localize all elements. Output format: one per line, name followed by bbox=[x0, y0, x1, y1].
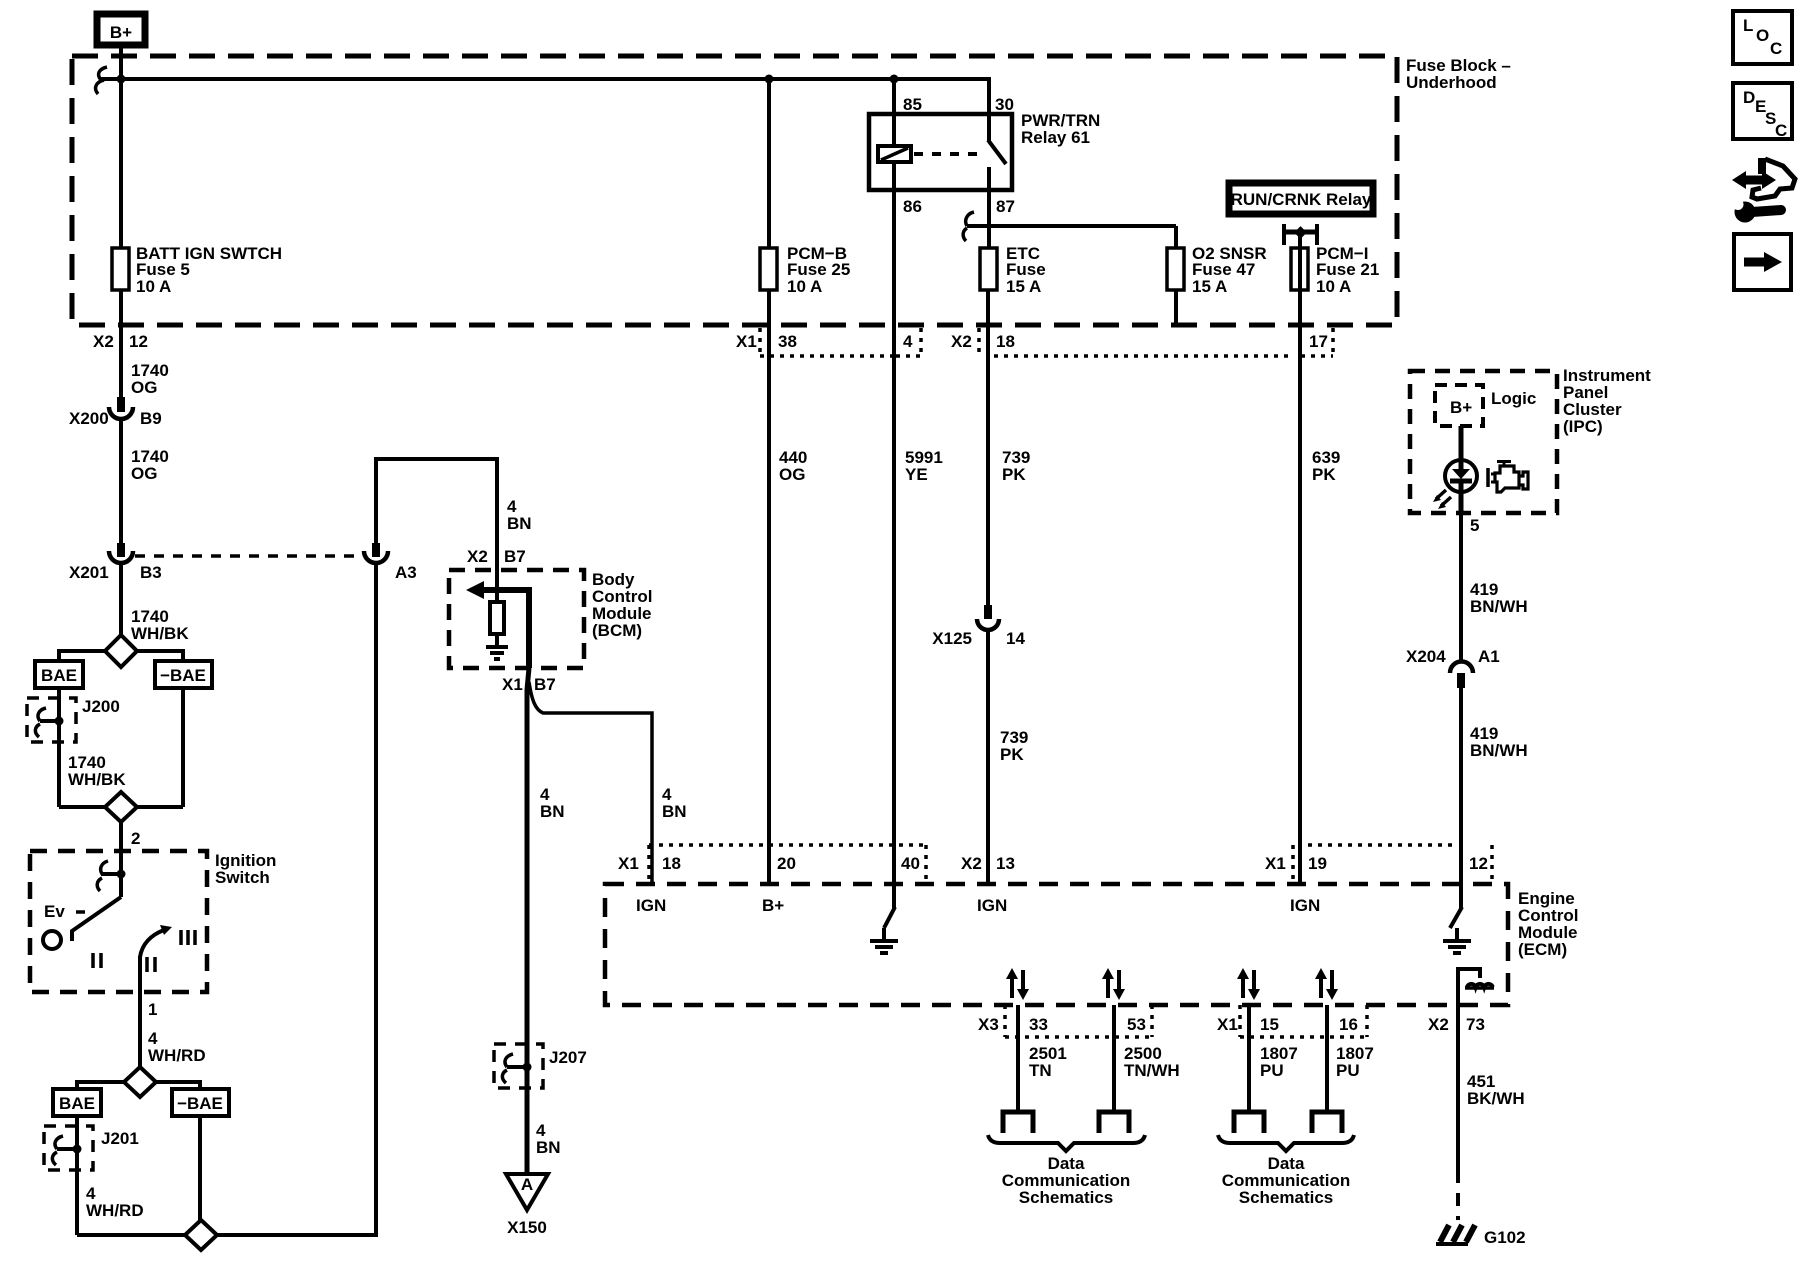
dashed tie line X201 to A3 bbox=[135, 554, 362, 558]
wire LED to IPC pin 5 bbox=[1459, 492, 1464, 513]
wire 1807 PU pin 15 bbox=[1247, 1005, 1251, 1112]
ground inside ECM at pin 12 bbox=[1443, 928, 1471, 953]
wire 2500 TN/WH pin 53 bbox=[1112, 1005, 1116, 1112]
ground G102 bbox=[1436, 1225, 1526, 1247]
wire RUN/CRNK relay output through PCM-I fuse bbox=[1298, 232, 1302, 884]
svg-text:PU: PU bbox=[1260, 1061, 1284, 1080]
svg-text:14: 14 bbox=[1006, 629, 1025, 648]
brace data communication right bbox=[1218, 1135, 1354, 1151]
break symbol at splice of pin 87 feed bbox=[963, 212, 974, 241]
svg-text:X2: X2 bbox=[93, 332, 114, 351]
ignition switch position marks I I bbox=[93, 953, 101, 968]
fuse block underhood dashed outline bbox=[72, 56, 1397, 325]
svg-text:X1: X1 bbox=[1217, 1015, 1238, 1034]
svg-text:(BCM): (BCM) bbox=[592, 621, 642, 640]
connector row under fuse block dotted outline bbox=[760, 328, 1333, 358]
svg-text:15 A: 15 A bbox=[1192, 277, 1227, 296]
module ECM Engine Control Module box bbox=[605, 884, 1578, 1005]
relay linkage dashed line bbox=[914, 152, 984, 156]
svg-text:13: 13 bbox=[996, 854, 1015, 873]
svg-text:15 A: 15 A bbox=[1006, 277, 1041, 296]
wire 739 PK X125 to ECM pin 13 bbox=[986, 630, 990, 884]
connector label X2 B7 at BCM top bbox=[467, 547, 526, 566]
relay U61 PWR/TRN Relay box bbox=[869, 95, 1100, 216]
svg-text:L: L bbox=[1743, 16, 1753, 35]
wire 739 PK ETC fuse down to X125 bbox=[986, 290, 990, 606]
IPC logic block B+ bbox=[1435, 385, 1536, 426]
splice J201 bbox=[44, 1126, 139, 1170]
svg-text:Switch: Switch bbox=[215, 868, 270, 887]
wire label 739 PK upper bbox=[1002, 448, 1030, 484]
wire 419 BN/WH IPC pin 5 to X204 bbox=[1459, 513, 1463, 662]
svg-text:X201: X201 bbox=[69, 563, 109, 582]
splice J200 bbox=[27, 697, 120, 742]
power symbol B+ battery feed bbox=[97, 14, 145, 45]
svg-text:Logic: Logic bbox=[1491, 389, 1536, 408]
ECM bottom connector dotted outline bbox=[1005, 1005, 1367, 1037]
svg-text:87: 87 bbox=[996, 197, 1015, 216]
wire 4 BN BCM to X150 run bbox=[527, 668, 529, 1174]
connector X200 inline bbox=[69, 397, 162, 428]
svg-text:(ECM): (ECM) bbox=[1518, 940, 1567, 959]
svg-text:40: 40 bbox=[901, 854, 920, 873]
svg-text:53: 53 bbox=[1127, 1015, 1146, 1034]
svg-text:Underhood: Underhood bbox=[1406, 73, 1497, 92]
fuse F5 BATT IGN SWTCH bbox=[112, 244, 282, 296]
wire BCM internal feed arrow bbox=[466, 581, 529, 668]
wire 4 BN branch to ECM IGN pin 18 bbox=[529, 682, 652, 884]
svg-text:A: A bbox=[521, 1175, 533, 1194]
svg-text:Ev: Ev bbox=[44, 902, 65, 921]
svg-text:X125: X125 bbox=[932, 629, 972, 648]
off-page connector X150 triangle A bbox=[506, 1174, 548, 1237]
svg-text:15: 15 bbox=[1260, 1015, 1279, 1034]
ignition switch box bbox=[30, 851, 276, 992]
wire bottom run to A3 riser bbox=[77, 563, 376, 1235]
svg-text:12: 12 bbox=[129, 332, 148, 351]
svg-text:IGN: IGN bbox=[1290, 896, 1320, 915]
wire label 1740 OG upper bbox=[131, 361, 169, 397]
engine telltale icon bbox=[1488, 462, 1528, 493]
svg-text:BAE: BAE bbox=[59, 1094, 95, 1113]
wire label 4 BN right branch bbox=[662, 785, 687, 821]
relay RUN/CRNK Relay label box bbox=[1229, 183, 1373, 214]
nav icon DESC box bbox=[1733, 83, 1792, 140]
svg-text:C: C bbox=[1770, 39, 1782, 58]
svg-text:BN: BN bbox=[507, 514, 532, 533]
wire label 5991 YE bbox=[905, 448, 943, 484]
svg-text:TN: TN bbox=[1029, 1061, 1052, 1080]
ignition switch position marks II bbox=[147, 957, 155, 972]
ignition switch travel arc with arrow bbox=[140, 925, 172, 957]
wire dashed tail to G102 bbox=[1456, 1170, 1460, 1220]
svg-text:Relay 61: Relay 61 bbox=[1021, 128, 1090, 147]
module BCM Body Control Module box bbox=[449, 570, 652, 668]
svg-text:38: 38 bbox=[778, 332, 797, 351]
data link arrows pin 33 bbox=[1006, 968, 1029, 1000]
svg-text:30: 30 bbox=[995, 95, 1014, 114]
wire relay pin 85 from bus bbox=[892, 79, 896, 146]
svg-text:10 A: 10 A bbox=[787, 277, 822, 296]
svg-text:C: C bbox=[1775, 121, 1787, 140]
svg-text:73: 73 bbox=[1466, 1015, 1485, 1034]
off-page terminator pin 33 bbox=[1003, 1112, 1033, 1133]
fuse F21 PCM-I bbox=[1291, 244, 1379, 296]
ECM internal switch at pin 12 bbox=[1450, 884, 1462, 928]
svg-text:G102: G102 bbox=[1484, 1228, 1526, 1247]
chassis ground bumps inside ECM bbox=[1467, 984, 1493, 987]
connector X201 inline bbox=[69, 543, 162, 582]
svg-text:J207: J207 bbox=[549, 1048, 587, 1067]
ground inside ECM at pin 40 bbox=[870, 928, 898, 953]
node junction dot B+ bus / Fuse 5 bbox=[117, 75, 126, 84]
splice J207 bbox=[494, 1044, 587, 1088]
wire label 451 BK/WH bbox=[1467, 1072, 1525, 1108]
wire label 4 WH/RD lower bbox=[86, 1184, 144, 1220]
wire label 419 BN/WH lower bbox=[1470, 724, 1528, 760]
svg-text:18: 18 bbox=[996, 332, 1015, 351]
svg-text:2: 2 bbox=[131, 829, 140, 848]
wire 1740 WH/BK X201 to splice diamond bbox=[119, 563, 123, 637]
wire 1807 PU pin 16 bbox=[1325, 1005, 1329, 1112]
svg-text:20: 20 bbox=[777, 854, 796, 873]
ground inside BCM bbox=[486, 634, 508, 659]
svg-text:YE: YE bbox=[905, 465, 928, 484]
svg-text:X1: X1 bbox=[502, 675, 523, 694]
fuse F47 O2 SNSR bbox=[1167, 244, 1267, 296]
svg-text:PU: PU bbox=[1336, 1061, 1360, 1080]
svg-text:17: 17 bbox=[1309, 332, 1328, 351]
wire -BAE lower down to splice bbox=[198, 1116, 202, 1235]
svg-text:BN/WH: BN/WH bbox=[1470, 597, 1528, 616]
svg-text:B9: B9 bbox=[140, 409, 162, 428]
wire label 639 PK bbox=[1312, 448, 1340, 484]
svg-text:B+: B+ bbox=[1450, 398, 1472, 417]
wire BAE down through J200 bbox=[57, 688, 61, 807]
svg-text:Schematics: Schematics bbox=[1019, 1188, 1114, 1207]
svg-text:X150: X150 bbox=[507, 1218, 547, 1237]
wire label 1740 WH/BK bbox=[131, 607, 189, 643]
splice diamond lower bbox=[124, 1067, 156, 1097]
svg-text:16: 16 bbox=[1339, 1015, 1358, 1034]
off-page terminator pin 53 bbox=[1099, 1112, 1129, 1133]
svg-text:BN: BN bbox=[536, 1138, 561, 1157]
ECM bottom connector pin labels bbox=[978, 1015, 1485, 1034]
svg-text:B+: B+ bbox=[762, 896, 784, 915]
svg-text:B+: B+ bbox=[110, 23, 132, 42]
LED diode triangle and bar bbox=[1450, 460, 1472, 494]
ignition switch blade bbox=[72, 897, 121, 941]
svg-text:IGN: IGN bbox=[977, 896, 1007, 915]
svg-text:1: 1 bbox=[148, 1000, 157, 1019]
svg-text:B7: B7 bbox=[534, 675, 556, 694]
wire B+ feed down to Fuse 5 bbox=[119, 46, 123, 250]
wire splice to lower BAE terminals bbox=[77, 1082, 200, 1089]
wire Fuse 5 to connector X2-12 bbox=[119, 290, 123, 404]
svg-text:A3: A3 bbox=[395, 563, 417, 582]
ECM top connector pin labels bbox=[618, 854, 1488, 873]
nav icon LOC box bbox=[1733, 11, 1792, 64]
svg-text:X2: X2 bbox=[1428, 1015, 1449, 1034]
data link arrows pin 16 bbox=[1315, 968, 1338, 1000]
svg-text:10 A: 10 A bbox=[1316, 277, 1351, 296]
wire BAE lower down through J201 bbox=[75, 1116, 79, 1235]
wire 2501 TN pin 33 bbox=[1016, 1005, 1020, 1112]
svg-text:10 A: 10 A bbox=[136, 277, 171, 296]
svg-text:19: 19 bbox=[1308, 854, 1327, 873]
svg-text:D: D bbox=[1743, 88, 1755, 107]
wire PCM-B fuse feed from bus bbox=[767, 79, 771, 250]
svg-text:B3: B3 bbox=[140, 563, 162, 582]
svg-text:RUN/CRNK Relay: RUN/CRNK Relay bbox=[1231, 190, 1372, 209]
splice diamond upper bbox=[105, 635, 137, 667]
connector A3 inline bbox=[364, 543, 417, 582]
terminal box BAE upper bbox=[35, 661, 83, 688]
relay switch blade bbox=[988, 140, 1006, 164]
svg-text:BN: BN bbox=[540, 802, 565, 821]
ECM pin function labels bbox=[636, 896, 1320, 915]
fuse F25 PCM-B bbox=[760, 244, 850, 296]
nav icon wrench bbox=[1729, 198, 1781, 223]
svg-text:(IPC): (IPC) bbox=[1563, 417, 1603, 436]
splice diamond to ignition switch bbox=[59, 792, 183, 822]
label Data Communication Schematics right bbox=[1222, 1154, 1350, 1207]
wire label 419 BN/WH upper bbox=[1470, 580, 1528, 616]
node junction dot B+ bus / relay pin 85 bbox=[890, 75, 899, 84]
svg-text:85: 85 bbox=[903, 95, 922, 114]
svg-text:X2: X2 bbox=[467, 547, 488, 566]
wire splice to ignition switch pin 2 bbox=[119, 822, 123, 897]
indicator LED circle bbox=[1445, 460, 1477, 492]
wire label 2500 TN/WH bbox=[1124, 1044, 1180, 1080]
connector X125 inline bbox=[932, 605, 1025, 648]
svg-text:PK: PK bbox=[1002, 465, 1026, 484]
ECM internal switch at pin 40 bbox=[884, 884, 895, 928]
terminal box -BAE upper bbox=[155, 661, 212, 688]
wire ignition switch pin 1 down bbox=[138, 956, 142, 1067]
wire 419 BN/WH X204 to ECM pin 12 bbox=[1459, 688, 1463, 884]
wire 1740 OG X200 to X201 bbox=[119, 419, 123, 544]
ignition switch position text Ev bbox=[44, 902, 65, 921]
wire 451 BK/WH ECM pin 73 to G102 bbox=[1456, 1005, 1460, 1170]
svg-text:X200: X200 bbox=[69, 409, 109, 428]
svg-text:WH/RD: WH/RD bbox=[86, 1201, 144, 1220]
LED emission arrows bbox=[1433, 490, 1451, 509]
off-page terminator pin 16 bbox=[1312, 1112, 1342, 1133]
wire label 4 BN at X150 bbox=[536, 1121, 561, 1157]
svg-text:−BAE: −BAE bbox=[177, 1094, 223, 1113]
node junction dot B+ bus / Fuse 25 bbox=[765, 75, 774, 84]
wire B+ logic to telltale LED bbox=[1459, 426, 1464, 460]
svg-text:OG: OG bbox=[131, 378, 157, 397]
svg-text:BAE: BAE bbox=[41, 666, 77, 685]
connector label X1 B7 at BCM bottom bbox=[502, 675, 556, 694]
svg-text:12: 12 bbox=[1469, 854, 1488, 873]
wire label 1740 OG lower bbox=[131, 447, 169, 483]
wire O2 SNSR fuse to connector stub bbox=[1174, 290, 1178, 325]
terminal box -BAE lower bbox=[172, 1089, 229, 1116]
svg-text:PK: PK bbox=[1000, 745, 1024, 764]
svg-text:BN/WH: BN/WH bbox=[1470, 741, 1528, 760]
data link arrows pin 53 bbox=[1102, 968, 1125, 1000]
wire label 4 BN left branch bbox=[540, 785, 565, 821]
svg-text:O: O bbox=[1756, 26, 1769, 45]
wire label 1807 PU pin 15 bbox=[1260, 1044, 1298, 1080]
ignition switch common terminal circle bbox=[43, 931, 61, 949]
wire label 4 WH/RD bbox=[148, 1029, 206, 1065]
svg-text:Schematics: Schematics bbox=[1239, 1188, 1334, 1207]
svg-text:33: 33 bbox=[1029, 1015, 1048, 1034]
off-page terminator pin 15 bbox=[1234, 1112, 1264, 1133]
wire 4 BN from A3 up over to BCM bbox=[376, 459, 497, 602]
nav icon forward arrow box bbox=[1734, 234, 1791, 290]
wire splice feed pin 87 to O2 SNSR fuse bbox=[967, 226, 1176, 250]
svg-text:B7: B7 bbox=[504, 547, 526, 566]
resistor inside BCM bbox=[490, 590, 504, 634]
svg-text:BN: BN bbox=[662, 802, 687, 821]
svg-text:X1: X1 bbox=[736, 332, 757, 351]
svg-text:86: 86 bbox=[903, 197, 922, 216]
break symbol at left end of B+ bus bbox=[96, 67, 107, 94]
connector row under fuse block labels bbox=[93, 332, 1328, 351]
svg-text:J200: J200 bbox=[82, 697, 120, 716]
svg-text:X1: X1 bbox=[1265, 854, 1286, 873]
svg-text:5: 5 bbox=[1470, 516, 1479, 535]
ECM top connector dotted line bbox=[649, 845, 1492, 884]
wire -BAE down to splice bbox=[181, 688, 185, 807]
wire B+ bus inside fuse block bbox=[100, 79, 989, 141]
svg-text:X3: X3 bbox=[978, 1015, 999, 1034]
svg-text:X2: X2 bbox=[961, 854, 982, 873]
wire label 2501 TN bbox=[1029, 1044, 1067, 1080]
svg-text:J201: J201 bbox=[101, 1129, 139, 1148]
wire label 1807 PU pin 16 bbox=[1336, 1044, 1374, 1080]
svg-text:BK/WH: BK/WH bbox=[1467, 1089, 1525, 1108]
svg-text:X2: X2 bbox=[951, 332, 972, 351]
wire label 440 OG bbox=[779, 448, 807, 484]
connector X204 inline bbox=[1406, 647, 1500, 688]
wire label 1740 WH/BK lower left bbox=[68, 753, 126, 789]
break symbol inside ignition switch bbox=[97, 861, 125, 891]
ignition switch position marks III bbox=[181, 930, 195, 945]
label Data Communication Schematics left bbox=[1002, 1154, 1130, 1207]
svg-text:18: 18 bbox=[662, 854, 681, 873]
terminal box BAE lower bbox=[53, 1089, 101, 1116]
relay socket terminal bracket bbox=[1284, 224, 1317, 245]
module IPC Instrument Panel Cluster box bbox=[1410, 366, 1651, 513]
svg-text:WH/BK: WH/BK bbox=[68, 770, 126, 789]
splice diamond bottom bbox=[185, 1220, 217, 1250]
wire 440 OG Fuse 25 down to ECM pin 20 bbox=[767, 290, 771, 884]
svg-text:X204: X204 bbox=[1406, 647, 1446, 666]
svg-text:PK: PK bbox=[1312, 465, 1336, 484]
ECM case ground branch to pin 73 bbox=[1458, 969, 1480, 1005]
svg-text:A1: A1 bbox=[1478, 647, 1500, 666]
svg-text:X1: X1 bbox=[618, 854, 639, 873]
relay coil bbox=[878, 146, 911, 162]
svg-text:WH/BK: WH/BK bbox=[131, 624, 189, 643]
svg-text:WH/RD: WH/RD bbox=[148, 1046, 206, 1065]
wire label 4 BN at BCM feed bbox=[507, 497, 532, 533]
svg-text:OG: OG bbox=[779, 465, 805, 484]
wire splice to BAE terminals bbox=[59, 651, 183, 661]
nav icon hood release arrows bbox=[1732, 158, 1795, 199]
svg-text:4: 4 bbox=[903, 332, 913, 351]
fuse ETC bbox=[980, 244, 1046, 296]
wire label 739 PK lower bbox=[1000, 728, 1028, 764]
wire 5991 YE relay pin 86 to ECM pin 40 bbox=[892, 162, 896, 884]
svg-text:TN/WH: TN/WH bbox=[1124, 1061, 1180, 1080]
svg-text:−BAE: −BAE bbox=[160, 666, 206, 685]
wire relay pin 87 down to ETC fuse bbox=[987, 167, 991, 250]
svg-text:OG: OG bbox=[131, 464, 157, 483]
brace data communication left bbox=[988, 1135, 1145, 1151]
svg-text:IGN: IGN bbox=[636, 896, 666, 915]
data link arrows pin 15 bbox=[1237, 968, 1260, 1000]
